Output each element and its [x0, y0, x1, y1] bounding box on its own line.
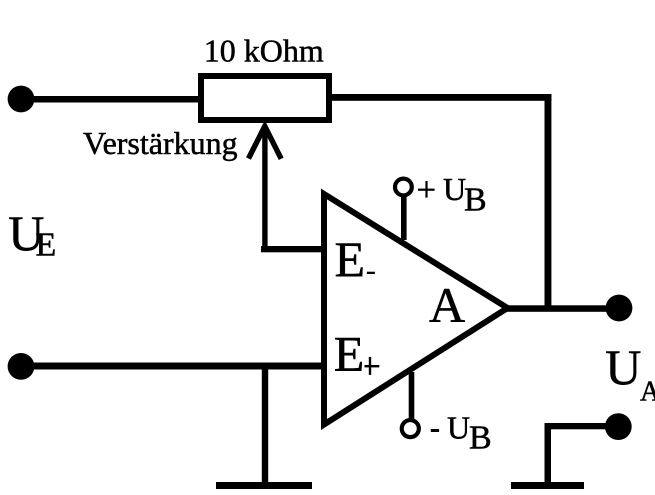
terminal -UB open circle [402, 420, 419, 437]
label E+ subscript plus vertical [369, 357, 371, 375]
wire -UB supply to op-amp bottom [409, 372, 415, 420]
wire ground right vertical [545, 423, 552, 482]
wire R1 right to feedback corner [329, 94, 552, 101]
svg-text:U: U [443, 171, 466, 207]
svg-text:U: U [605, 339, 641, 395]
svg-text:10 kOhm: 10 kOhm [204, 33, 324, 69]
potentiometer wiper arrowhead [249, 126, 282, 159]
wire op-amp output to output terminal [505, 305, 619, 312]
wire input terminal to R1 left [21, 96, 200, 103]
node lower input terminal [8, 353, 35, 380]
potentiometer wiper arrow stem [262, 127, 267, 252]
svg-text:U: U [447, 410, 470, 446]
label dash of -UB [431, 429, 439, 432]
wire junction to ground left [262, 366, 268, 485]
label plus of +UB vertical [425, 181, 427, 198]
svg-text:E: E [334, 326, 365, 382]
wire wiper to E- input [261, 246, 326, 252]
label E- subscript minus [367, 272, 375, 274]
svg-text:B: B [469, 419, 492, 456]
node output terminal UA [606, 295, 633, 322]
ground right bar [511, 482, 584, 489]
op-amp U1 triangle [324, 194, 508, 425]
wire E+ input from lower terminal [21, 363, 327, 370]
label plus of +UB horizontal [418, 189, 435, 191]
svg-text:Verstärkung: Verstärkung [83, 125, 238, 161]
svg-text:E: E [36, 227, 57, 264]
node UE input terminal [8, 86, 35, 113]
wire lower output terminal to ground right [545, 423, 607, 429]
svg-text:A: A [429, 277, 465, 333]
resistor R1 body [201, 76, 329, 120]
terminal +UB open circle [395, 179, 412, 196]
wire feedback vertical down to output [545, 94, 552, 312]
svg-text:A: A [640, 377, 655, 408]
svg-text:B: B [464, 182, 487, 219]
label E+ subscript plus horizontal [365, 365, 380, 367]
wire +UB supply to op-amp top [401, 195, 407, 240]
svg-text:E: E [335, 231, 366, 287]
ground left bar [216, 482, 312, 489]
node lower output terminal [605, 413, 632, 440]
